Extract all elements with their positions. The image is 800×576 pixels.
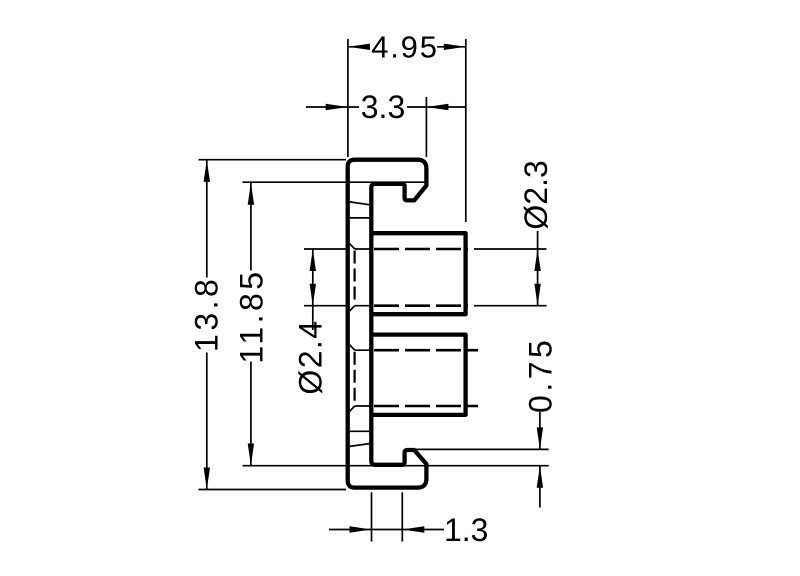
hidden hole line upper boss bottom [374,304,468,307]
upper hole edge in wall (top) [355,248,372,250]
lower hole edge in wall (top) [355,349,372,351]
svg-text:13.8: 13.8 [189,276,225,352]
dimension 4.95: extension line left [347,39,349,157]
wall feature line (slanted, top) [350,202,370,205]
svg-text:3.3: 3.3 [361,89,405,125]
dimension 11.85: dim line and arrows [250,183,252,271]
dimension dia2.4: dim line and arrows [312,249,314,330]
dimension 13.8: extension lines [199,159,347,161]
hidden hole line lower boss bottom [374,405,478,408]
svg-text:0.75: 0.75 [523,337,559,413]
dimension dia2.4: extension lines [304,248,346,250]
hidden hole line upper boss top [374,248,468,251]
dimension 1.3: dim line and arrows [329,529,444,531]
hidden countersink line in wall (upper hole) [354,251,356,305]
lower hole countersink chevron top [350,345,355,351]
dimension 3.3: dim lines and arrows [306,106,359,108]
svg-text:4.95: 4.95 [371,30,439,65]
wall feature line (horizontal, bottom) [350,430,370,432]
dimension 13.8: dim line and arrows [206,160,208,278]
upper hole edge in wall (bottom) [355,305,372,307]
dimension 0.75: dim line lower arrow [539,466,541,508]
hidden countersink line in wall (lower hole) [354,352,356,405]
dimension 1.3: extension lines [371,492,373,541]
boss 1 (upper mounting pin) [371,233,465,314]
bottom inner surface edge + 11.85/0.75 extension line [243,465,549,467]
dimension 3.3: extension line right (hook edge) [425,97,427,157]
top flange inner edge + 11.85 top extension line [243,181,427,183]
svg-text:11.85: 11.85 [234,268,270,363]
lower hole countersink chevron bottom [350,406,355,412]
svg-text:1.3: 1.3 [444,512,488,548]
boss 2 (lower mounting pin) [371,335,465,415]
upper hole countersink chevron top [350,244,355,249]
part outline: clip profile section [348,160,427,488]
dimension 4.95: dim lines and arrows [348,46,369,48]
dimension 0.75: dim line upper arrow [539,412,541,449]
svg-text:Ø2.3: Ø2.3 [518,160,554,229]
dimension dia2.3: extension lines [474,248,547,250]
hidden hole line lower boss top [374,349,478,352]
dimension 4.95: extension line right [465,39,467,222]
0.75 top extension line (bottom barb shoulder) [413,448,549,450]
upper hole countersink chevron bottom [350,306,355,311]
lower hole edge in wall (bottom) [355,405,372,407]
dimension dia2.3: dim line and arrows [537,231,539,306]
svg-text:Ø2.4: Ø2.4 [293,320,329,395]
wall feature line (slanted, bottom) [350,444,370,447]
wall feature line (horizontal, top) [350,217,370,219]
